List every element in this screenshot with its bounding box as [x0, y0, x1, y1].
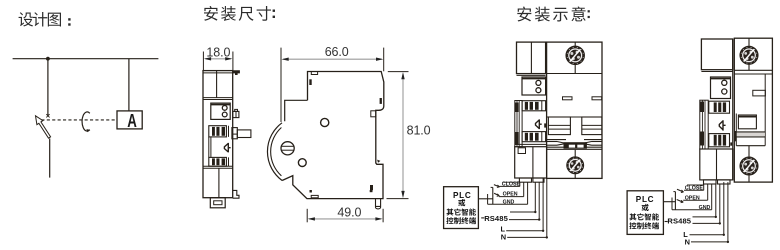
switch blade arrow (hollow) — [36, 116, 51, 138]
clip arrow (front) — [224, 143, 230, 153]
terminal block 1 (front) — [209, 126, 227, 137]
assembly1 RS485 label — [481, 217, 484, 219]
svg-text:N: N — [501, 233, 506, 242]
assembly2 breaker window box — [738, 115, 756, 129]
assembly1 CLOSE contact blade — [494, 185, 500, 187]
wire vertical from junction to switch contact — [47, 59, 49, 116]
right clip small box — [371, 111, 376, 117]
mid rail channel lines — [208, 137, 210, 158]
assembly2 CLOSE wire — [684, 189, 704, 191]
assembly1 switch bus — [478, 198, 492, 200]
knob shaft circle with slot — [281, 142, 294, 155]
knob hinge inner arc — [271, 128, 282, 176]
assembly1 clip arrow — [536, 119, 542, 129]
assembly1 RS485 wire B — [509, 219, 539, 221]
svg-text:OPEN: OPEN — [685, 195, 700, 201]
assembly1 CLOSE wire — [500, 185, 520, 187]
svg-text:RS485: RS485 — [484, 214, 508, 223]
svg-text:CLOSE: CLOSE — [502, 181, 521, 187]
assembly2 signal connector box with 2 circles — [711, 77, 731, 99]
bottom-right foot hook — [233, 190, 239, 198]
svg-text:81.0: 81.0 — [407, 124, 431, 138]
assembly1 breaker bottom knob — [574, 150, 576, 179]
assembly1 breaker top section — [547, 73, 602, 75]
assembly2 breaker bottom knob — [748, 146, 750, 182]
svg-text:N: N — [685, 237, 690, 246]
assembly1 narrow bottom section — [515, 143, 547, 145]
svg-text:GND: GND — [503, 199, 515, 205]
bottom section lines — [203, 165, 233, 167]
assembly2 terminal block 1 — [709, 101, 730, 113]
assembly2 breaker top knob — [740, 46, 758, 64]
assembly1 OPEN wire — [499, 196, 524, 198]
long terminal pin — [232, 128, 237, 139]
dimension 49.0 — [306, 209, 308, 223]
wire vertical below switch — [49, 139, 51, 178]
assembly2 wire tabs — [704, 180, 717, 184]
title 设计图: — [19, 12, 34, 26]
right side clip dark mark — [370, 185, 373, 190]
dashed linkage wire — [41, 119, 117, 121]
wire vertical to box A — [128, 59, 130, 111]
assembly2 RS485 label — [665, 221, 668, 223]
bottom terminal pin — [376, 199, 381, 209]
assembly1 breaker terminal band — [547, 116, 602, 118]
assembly1 terminal block 2 — [522, 132, 546, 142]
assembly2 RS485 wire B — [693, 222, 720, 224]
assembly2 narrow device head box — [701, 39, 732, 70]
signal connector box with 2 circles — [211, 103, 230, 119]
bottom DIN tab — [210, 198, 225, 208]
right edge dark bar — [380, 98, 382, 104]
dimension 18.0 — [202, 52, 204, 71]
assembly1 breaker face notches — [563, 97, 573, 100]
title 安装尺寸: — [204, 6, 218, 21]
assembly1 PLC box — [444, 187, 479, 229]
assembly2 PLC box — [627, 191, 663, 235]
switch contact mark — [46, 114, 49, 117]
bottom screw marks — [310, 190, 312, 193]
assembly1 breaker top knob — [566, 46, 584, 64]
svg-text:18.0: 18.0 — [206, 45, 230, 59]
assembly1 GND wire — [488, 203, 528, 205]
assembly2 CLOSE contact blade — [677, 189, 684, 192]
assembly1 narrow device head box — [517, 42, 546, 74]
title 安装示意: — [517, 7, 531, 22]
assembly2 clip arrow — [719, 120, 725, 130]
assembly2 OPEN contact blade — [677, 200, 684, 203]
assembly2 GND wire — [672, 209, 712, 211]
svg-text:RS485: RS485 — [667, 217, 691, 226]
right step arrow mark — [377, 160, 380, 163]
assembly2 breaker band — [735, 114, 737, 146]
assembly2 terminal block 2 — [709, 134, 730, 147]
assembly1 terminal block 1 — [522, 101, 546, 111]
svg-text:PLC: PLC — [636, 195, 654, 204]
assembly2 breaker right channel — [764, 74, 766, 146]
svg-text:66.0: 66.0 — [325, 45, 349, 59]
svg-text:OPEN: OPEN — [503, 192, 518, 198]
svg-text:A: A — [127, 111, 137, 132]
assembly1 breaker outline — [547, 42, 602, 178]
rotation symbol (motor drive arc) — [82, 112, 90, 131]
knob hinge outer arc — [267, 123, 282, 181]
side view outline — [282, 72, 384, 199]
svg-text:CLOSE: CLOSE — [685, 185, 704, 191]
assembly1 RS485 wire A — [510, 211, 535, 213]
node junction dot — [46, 57, 50, 61]
svg-text:49.0: 49.0 — [337, 206, 361, 220]
assembly2 narrow right edge — [732, 39, 734, 180]
terminal block 2 (front) — [209, 157, 227, 166]
assembly2 RS485 wire A — [693, 216, 716, 218]
dimension 66.0 — [280, 48, 282, 122]
front view body outline — [203, 71, 233, 198]
svg-text:PLC: PLC — [453, 191, 471, 200]
assembly1 wire tabs — [519, 178, 531, 182]
front head bottom lines — [203, 97, 233, 99]
assembly1 breaker dark band — [547, 139, 566, 141]
assembly1 OPEN contact blade — [494, 193, 499, 196]
assembly2 breaker face notch — [753, 90, 766, 96]
right side plug tab — [233, 111, 239, 117]
front head section divider — [216, 71, 218, 98]
assembly2 switch bus — [663, 201, 675, 203]
box A (actuator) — [117, 111, 142, 129]
assembly2 left rail column — [700, 100, 708, 149]
assembly2 narrow bottom section — [700, 148, 733, 150]
dimension 81.0 — [388, 71, 409, 73]
assembly2 breaker outline — [734, 38, 772, 182]
assembly2 OPEN wire — [683, 199, 708, 201]
assembly1 left rail column — [515, 101, 522, 147]
assembly2 breaker top section — [734, 69, 772, 71]
assembly1 signal connector box with 2 circles — [522, 77, 546, 95]
top edge screw slot — [311, 72, 317, 75]
side body circles (rivets) — [321, 118, 329, 126]
top-right DIN hook foot — [233, 70, 240, 75]
bus wire (top horizontal) — [13, 58, 159, 60]
svg-text:GND: GND — [699, 205, 711, 211]
